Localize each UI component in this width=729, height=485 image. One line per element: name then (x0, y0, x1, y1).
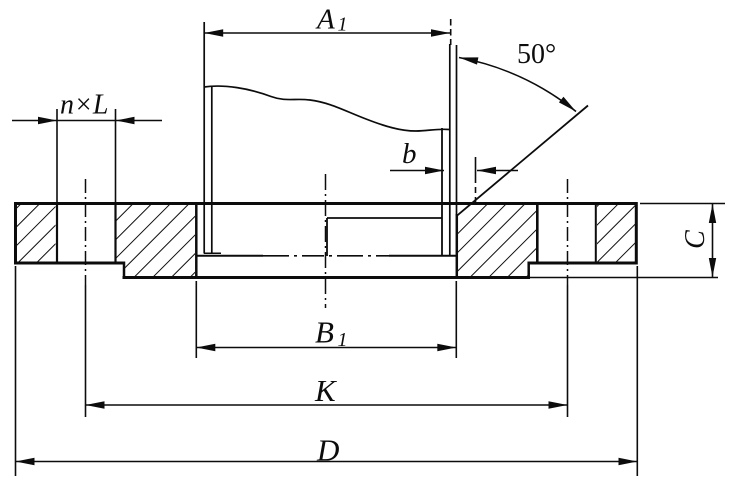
arrow C top (709, 204, 716, 223)
hub step right (527, 262, 530, 280)
socket left wall (195, 202, 198, 277)
arrow arc bottom (559, 97, 576, 112)
B1 left extension (195, 281, 197, 358)
arrow B1 left (196, 344, 215, 351)
hatch region 4 (right outer ring) (597, 205, 635, 262)
plate bottom left (14, 262, 125, 265)
K left extension (85, 285, 87, 417)
b dimension line left part (390, 170, 444, 172)
C bottom extension (530, 277, 718, 279)
arrow K left (86, 401, 105, 408)
bolt hole left, right edge (114, 203, 116, 263)
svg-text:1: 1 (338, 329, 348, 351)
flange right edge (635, 202, 638, 265)
B1 dimension line (196, 347, 456, 349)
K dimension line (86, 404, 568, 406)
hatch region 2 (left inner ring with hub step) (117, 205, 196, 277)
bolt hole right, left edge (536, 203, 539, 263)
arrow A1 left (204, 29, 223, 36)
svg-text:n×L: n×L (60, 90, 108, 121)
A1 right extension dashed (450, 19, 452, 45)
hatch region 3 (right inner ring with weld chamfer and hub step) (458, 205, 536, 277)
svg-text:1: 1 (338, 14, 348, 36)
svg-text:K: K (314, 373, 338, 408)
D left extension (15, 266, 17, 476)
pipe inner wall left (211, 87, 213, 254)
arrow b right (477, 167, 496, 174)
b dimension line right part (477, 170, 518, 172)
svg-text:50°: 50° (517, 39, 556, 70)
arrow nxL left (38, 117, 57, 124)
svg-text:B: B (315, 315, 334, 350)
bore left edge (326, 218, 328, 256)
svg-text:D: D (316, 433, 339, 468)
hub bottom (123, 276, 531, 279)
arrow arc top (459, 57, 478, 64)
socket bottom right solid (389, 255, 457, 257)
socket bottom left solid (196, 255, 263, 257)
arrow K right (549, 401, 568, 408)
C dimension line (712, 204, 714, 277)
bolt hole left, left edge (56, 203, 58, 263)
pipe outer wall left (203, 22, 205, 254)
arrow D right (619, 458, 638, 465)
B1 right extension (455, 281, 457, 358)
arrow nxL right (116, 117, 135, 124)
bore top line (327, 217, 442, 219)
flange top face (14, 202, 638, 205)
socket bottom center dash-dot (263, 255, 389, 257)
nxL left extension (56, 109, 58, 203)
arrow b left (425, 167, 444, 174)
D right extension (636, 266, 638, 476)
arrow D left (16, 458, 35, 465)
hub step left (123, 262, 126, 280)
arrow C bottom (709, 258, 716, 277)
arrow A1 right (431, 29, 450, 36)
socket right wall below chamfer (456, 214, 459, 278)
K right extension (567, 285, 569, 417)
nxL right extension (115, 109, 117, 203)
weld bevel 50 degree line (457, 106, 588, 216)
flange left edge (14, 202, 17, 265)
plate bottom right (528, 262, 638, 265)
bolt centerline right (567, 179, 569, 285)
center axis dash-dot (325, 174, 327, 308)
D dimension line (16, 461, 638, 463)
bolt centerline left (85, 179, 87, 285)
svg-text:C: C (680, 230, 711, 249)
A1 dimension line (204, 32, 450, 34)
pipe inner wall right (449, 44, 451, 255)
pipe end seat line (204, 252, 221, 254)
svg-text:b: b (402, 138, 417, 170)
hatch region 1 (left outer ring) (17, 205, 56, 262)
nxL dimension line (12, 120, 162, 122)
svg-text:A: A (315, 4, 335, 36)
bore right edge line (441, 128, 443, 257)
C top extension (640, 203, 725, 205)
bolt hole right, right edge (595, 203, 597, 263)
pipe outer wall right (456, 45, 458, 216)
arrow B1 right (437, 344, 456, 351)
b extension line (475, 157, 477, 177)
pipe break wavy line (204, 86, 450, 131)
50 degree arc (459, 58, 576, 112)
